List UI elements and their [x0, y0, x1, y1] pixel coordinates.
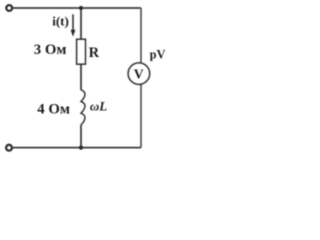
svg-text:ωL: ωL [90, 99, 107, 113]
node junction top [79, 6, 83, 10]
current arrow i(t) [71, 14, 76, 37]
terminal top-left [6, 5, 12, 11]
svg-text:3 Ом: 3 Ом [34, 42, 67, 58]
resistor R [77, 39, 86, 64]
middle branch wire top [80, 8, 82, 40]
right branch wire lower [140, 85, 142, 148]
bottom wire [13, 147, 141, 149]
top wire [13, 7, 141, 9]
inductor ωL [81, 90, 85, 125]
svg-text:V: V [134, 67, 144, 82]
svg-text:pV: pV [150, 48, 166, 62]
svg-text:R: R [89, 45, 100, 61]
terminal bottom-left [6, 145, 12, 151]
svg-text:4 Ом: 4 Ом [37, 101, 70, 117]
node junction bottom [79, 146, 83, 150]
middle branch wire mid [80, 64, 82, 90]
svg-text:i(t): i(t) [52, 13, 69, 28]
right branch wire upper [140, 8, 142, 64]
middle branch wire bottom [80, 125, 82, 148]
voltmeter U1 [128, 63, 150, 85]
